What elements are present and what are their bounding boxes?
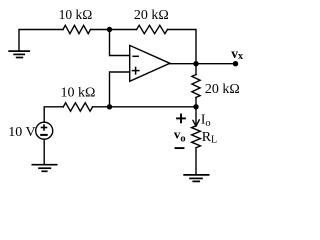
svg-text:vx: vx [231, 46, 243, 62]
svg-text:Io: Io [201, 111, 211, 129]
svg-text:10 V: 10 V [8, 125, 35, 140]
svg-text:20 kΩ: 20 kΩ [134, 8, 169, 23]
svg-text:vo: vo [174, 127, 186, 145]
svg-text:RL: RL [202, 130, 217, 146]
svg-text:10 kΩ: 10 kΩ [59, 7, 93, 22]
svg-text:20 kΩ: 20 kΩ [205, 82, 240, 97]
svg-text:10 kΩ: 10 kΩ [60, 85, 95, 100]
